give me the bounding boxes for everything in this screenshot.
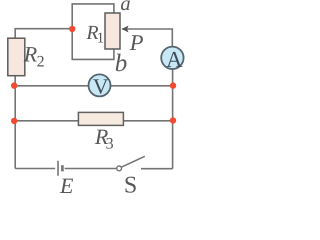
svg-text:V: V	[93, 74, 109, 98]
svg-text:2: 2	[37, 54, 45, 71]
svg-text:E: E	[59, 173, 74, 195]
svg-text:P: P	[129, 30, 144, 55]
svg-text:A: A	[166, 47, 183, 72]
svg-text:1: 1	[97, 31, 105, 47]
svg-text:b: b	[115, 50, 128, 77]
svg-text:R: R	[23, 42, 38, 67]
svg-text:S: S	[124, 172, 137, 195]
svg-text:a: a	[120, 0, 130, 15]
svg-text:3: 3	[106, 135, 114, 152]
